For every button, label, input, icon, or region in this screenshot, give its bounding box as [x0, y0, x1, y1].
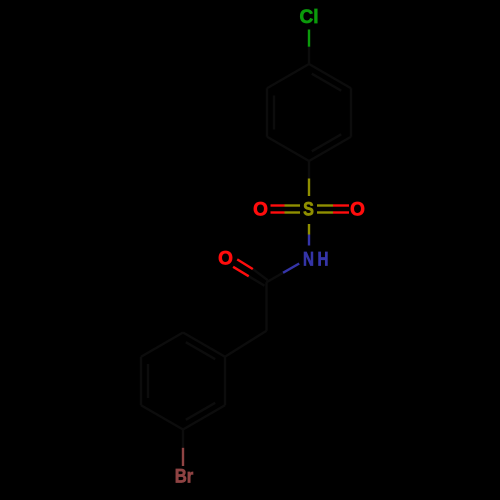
- ring1 edge C2-C3: [266, 88, 268, 137]
- double bond S=O left, line1 sulfur half: [285, 204, 301, 206]
- ring2 edge C11-C12: [141, 405, 183, 429]
- bond C11-Br (bromine half): [182, 448, 184, 466]
- bond S-N (nitrogen half): [308, 235, 310, 246]
- ring2 edge C10-C11 inner double line: [186, 403, 215, 420]
- atom label O amide: [218, 249, 233, 270]
- ring1 edge C2-C3 inner double line: [273, 96, 275, 130]
- double bond S=O right, line2 red half: [333, 211, 349, 213]
- ring2 edge C14-C9: [183, 333, 225, 357]
- double bond S=O left, line2 red half: [271, 211, 285, 213]
- double bond S=O right, line1 red half: [333, 204, 349, 206]
- ring2 edge C14-C9 inner double line: [186, 342, 215, 359]
- ring1 edge C3-C4: [267, 137, 309, 161]
- svg-text:Br: Br: [175, 466, 194, 487]
- bond N-C7 (nitrogen half): [283, 264, 299, 273]
- atom label Br: [175, 466, 194, 487]
- ring1 edge C1-C2: [267, 64, 309, 88]
- svg-text:O: O: [350, 200, 365, 221]
- svg-text:Cl: Cl: [300, 7, 319, 28]
- ring1 edge C5-C6: [350, 88, 352, 137]
- bond C4-S (carbon half): [308, 161, 310, 179]
- svg-text:S: S: [303, 198, 314, 220]
- bond C11-Br (carbon half): [182, 430, 184, 448]
- ring1 edge C4-C5: [309, 137, 351, 161]
- ring2 edge C9-C10: [224, 357, 226, 406]
- atom label O right: [350, 200, 365, 221]
- bond Cl-C1 (carbon half): [308, 47, 310, 64]
- svg-text:O: O: [253, 200, 268, 221]
- bond C8-C9: [225, 331, 267, 357]
- double bond S=O left, line1 red half: [271, 204, 285, 206]
- bond Cl-C1 (green half): [308, 30, 310, 47]
- svg-text:O: O: [218, 249, 233, 270]
- bond C7-C8: [265, 282, 267, 331]
- double bond C7=O line2 red half: [233, 267, 249, 277]
- ring2 edge C12-C13: [140, 357, 142, 406]
- bond N-C7 (carbon half): [267, 273, 284, 282]
- double bond C7=O line1 carbon half: [253, 269, 268, 280]
- atom label Cl: [300, 7, 319, 28]
- atom label O left: [253, 200, 268, 221]
- bond S-N (sulfur half): [308, 224, 310, 235]
- ring1 edge C4-C5 inner double line: [312, 134, 341, 151]
- atom label NH: [303, 248, 328, 270]
- bond C4-S (sulfur half): [308, 179, 310, 197]
- double bond S=O left, line2 sulfur half: [285, 211, 301, 213]
- atom label S: [303, 198, 314, 220]
- ring2 edge C13-C14: [141, 333, 183, 357]
- ring2 edge C10-C11: [183, 405, 225, 429]
- ring1 edge C6-C1: [309, 64, 351, 88]
- ring1 edge C6-C1 inner double line: [312, 74, 341, 91]
- ring2 edge C12-C13 inner double line: [147, 364, 149, 398]
- double bond C7=O line2 carbon half: [249, 276, 265, 285]
- double bond S=O right, line2 sulfur half: [317, 211, 333, 213]
- double bond C7=O line1 red half: [237, 259, 253, 269]
- svg-text:N: N: [303, 248, 314, 270]
- svg-text:H: H: [318, 248, 329, 270]
- double bond S=O right, line1 sulfur half: [317, 204, 333, 206]
